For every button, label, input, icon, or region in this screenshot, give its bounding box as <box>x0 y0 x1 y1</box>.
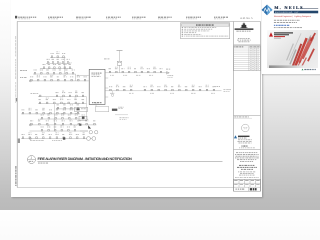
svg-text:ENGINEERING, INC.: ENGINEERING, INC. <box>275 11 300 14</box>
svg-text:1: 1 <box>30 156 32 160</box>
svg-text:M. NEILS: M. NEILS <box>275 5 305 10</box>
svg-text:A.M. No. 5: A.M. No. 5 <box>240 17 253 20</box>
svg-text:FIRE ALARM RISER DIAGRAM - INI: FIRE ALARM RISER DIAGRAM - INITIATION AN… <box>38 157 133 161</box>
svg-text:Electrical Engineers | Light: Electrical Engineers | Lighting Designer… <box>274 15 311 18</box>
